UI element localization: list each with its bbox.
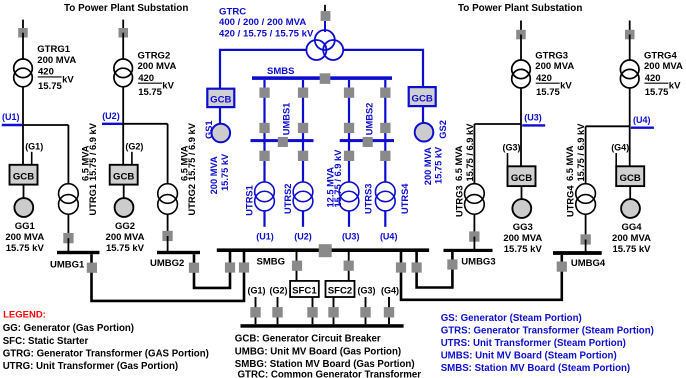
svg-text:(G4): (G4) [611,143,629,153]
svg-text:To Power Plant Substation: To Power Plant Substation [458,3,582,14]
breaker square GTRG3 HV [516,30,526,40]
breaker square aux drop x=312.5 [307,307,317,317]
breaker square GTRG1 HV [18,28,28,38]
svg-text:kV: kV [560,81,572,92]
wire GCB to generator GG3 [521,186,523,199]
bus UMBG3 [444,249,493,252]
bus UMBG4 [553,251,602,255]
wire SMBS drop 2 [302,80,304,183]
wire UTRG1 to breaker [67,214,69,238]
svg-text:GS: Generator (Steam Portion): GS: Generator (Steam Portion) [441,313,582,324]
svg-text:15.75 kV: 15.75 kV [612,244,651,255]
bus UMBS2 [340,139,394,142]
breaker square UMBG2 tie [189,263,199,273]
bus SMBS [252,76,392,80]
transformer UTRS1 [255,182,275,211]
breaker square UTRG2 [162,231,172,241]
svg-text:15.75: 15.75 [536,87,560,98]
svg-text:200 MVA: 200 MVA [612,233,651,244]
generator GG3 [512,199,531,218]
wire tie UMBG2 to SMBG [194,252,230,288]
svg-text:UTRS4: UTRS4 [400,183,410,214]
wire GTRG2 incoming stub [122,20,124,33]
breaker square drop 4 row 1 [380,88,390,98]
svg-text:GG1: GG1 [15,221,36,232]
fraction bar GTRG4 [644,82,668,84]
wire GCB to GS1 [219,107,221,124]
wire (G1) stub [31,152,33,165]
wire transformer GTRG2 to node U2 [122,87,124,124]
svg-text:kV: kV [162,81,174,92]
svg-text:15.75 / 6.9 kV: 15.75 / 6.9 kV [187,122,197,181]
breaker square drop 1 row 2 [259,123,269,133]
breaker square SFC1 top [292,261,302,271]
breaker square on SMBS bus [320,73,331,84]
svg-text:(U2): (U2) [294,232,312,242]
svg-text:(G2): (G2) [270,286,288,296]
wire GTRG4 incoming stub [629,21,631,35]
wire UTRG2 to breaker [167,214,169,236]
svg-text:15.75 / 6.9 kV: 15.75 / 6.9 kV [333,149,343,208]
wire UTRG2 breaker to bus [167,236,169,253]
svg-text:SMBG: Station MV Board (Gas Po: SMBG: Station MV Board (Gas Portion) [235,359,415,370]
breaker square SMBG tie left inner [225,262,235,272]
svg-text:UTRS: Unit Transformer (Steam: UTRS: Unit Transformer (Steam Portion) [441,338,626,349]
breaker square GTRG2 HV [119,28,129,38]
wire GTRG1 HV to transformer [22,33,24,59]
generator GG1 [14,198,33,217]
svg-text:UTRG4: UTRG4 [566,185,576,217]
wire SMBS drop 3 [348,80,350,183]
fraction bar GTRG2 [138,82,162,84]
wire node U4 blue segment [631,126,654,128]
svg-text:UMBG3: UMBG3 [461,257,495,268]
svg-text:GG2: GG2 [115,221,135,232]
breaker square drop 2 row 2 [298,123,308,133]
wire GCB to generator GG4 [629,186,631,199]
wire UTRG3 branch down [473,124,475,184]
svg-text:UTRS2: UTRS2 [283,184,293,214]
svg-text:UTRS3: UTRS3 [364,184,374,214]
breaker square UTRG4 [581,234,591,244]
transformer UTRG2 [158,184,178,215]
svg-text:GTRG1: GTRG1 [37,44,70,55]
wire node U3 to UTRG3 branch [474,123,521,125]
svg-text:(G1): (G1) [248,286,266,296]
bus UMBG1 [57,251,99,254]
wire aux bus drop x=365.5 [365,297,367,324]
svg-text:UTRG2: UTRG2 [187,184,197,216]
svg-text:420 / 15.75 / 15.75 kV: 420 / 15.75 / 15.75 kV [219,28,314,39]
breaker square drop 1 row 1 [259,88,269,98]
wire node U2 to UTRG2 branch [123,123,167,125]
svg-text:420: 420 [138,73,154,84]
svg-text:GCB: GCB [210,95,231,106]
wire GTRC to left GCB (steam) [220,50,306,89]
svg-text:6.5 MVA: 6.5 MVA [454,145,464,181]
wire UTRG4 to breaker [585,214,587,239]
svg-text:200 MVA: 200 MVA [106,232,145,243]
svg-text:(U1): (U1) [256,232,274,242]
svg-text:SFC: Static Starter: SFC: Static Starter [3,336,89,347]
breaker square SMBG tie left outer [239,262,249,272]
wire tie SMBG to UMBG4 [401,252,562,300]
svg-text:SMBS: SMBS [267,66,294,77]
svg-text:UTRG3: UTRG3 [454,185,464,217]
wire (G3) stub [507,153,509,166]
svg-text:UMBG: Unit MV Board (Gas Porti: UMBG: Unit MV Board (Gas Portion) [235,347,401,358]
svg-text:To Power Plant Substation: To Power Plant Substation [64,3,188,14]
circuit breaker GCB unit 4 (gas) [616,166,644,186]
svg-text:200 MVA: 200 MVA [209,156,219,194]
svg-text:kV: kV [62,74,74,85]
wire UTRS1 outlet stub [263,211,265,227]
wire aux bus drop x=255.5 [255,297,257,324]
breaker square aux drop x=277.5 [272,307,282,317]
wire tie UMBG1 to SMBG [92,252,245,301]
bus UMBG2 [157,251,200,254]
wire aux bus drop x=277.5 [277,297,279,324]
svg-text:200 MVA: 200 MVA [423,147,433,185]
svg-text:15.75 kV: 15.75 kV [106,243,145,254]
svg-text:LEGEND:: LEGEND: [3,310,46,321]
breaker square drop 2 row 1 [298,88,308,98]
wire UTRS3 outlet stub [348,211,350,227]
svg-text:6.5 MVA: 6.5 MVA [565,145,575,181]
svg-text:GG: Generator (Gas Portion): GG: Generator (Gas Portion) [3,323,134,334]
svg-text:GTRG4: GTRG4 [644,51,677,62]
wire node U1 to UTRG1 branch [23,124,68,126]
svg-text:GCB: Generator Circuit Breaker: GCB: Generator Circuit Breaker [235,334,381,345]
svg-text:15.75 kV: 15.75 kV [504,244,543,255]
svg-text:UMBS: Unit MV Board (Steam Por: UMBS: Unit MV Board (Steam Portion) [441,350,617,361]
breaker square UTRG3 [469,231,479,241]
wire UTRG2 branch down [167,124,169,184]
wire GTRG3 incoming stub [520,21,522,35]
svg-text:GTRC: GTRC [219,6,246,17]
wire transformer GTRG3 to node U3 [520,88,522,124]
svg-text:GS1: GS1 [204,120,214,139]
wire SMBG to SFC1 [296,252,298,282]
svg-text:400 / 200 / 200 MVA: 400 / 200 / 200 MVA [219,17,306,28]
svg-text:15.75 / 6.9 kV: 15.75 / 6.9 kV [576,123,586,182]
svg-text:420: 420 [38,67,54,78]
svg-text:(U3): (U3) [524,113,542,123]
transformer UTRS2 [293,182,313,211]
static starter SFC1 [290,281,319,297]
wire node U2 blue segment [102,123,123,125]
svg-text:kV: kV [669,81,681,92]
transformer UTRG1 [59,184,79,215]
wire UTRG3 breaker to bus [473,237,475,251]
wire node U1 to GCB [22,125,24,165]
transformer GTRC (3-winding) [306,30,343,60]
svg-text:UTRS1: UTRS1 [245,185,255,215]
wire GTRG2 HV to transformer [122,33,124,59]
svg-text:(G3): (G3) [503,143,521,153]
circuit breaker GCB unit 2 (gas) [110,165,138,185]
wire SMBG to SFC2 [348,252,350,282]
wire GTRG4 HV to transformer [629,35,631,61]
svg-text:UMBG1: UMBG1 [50,259,85,270]
svg-text:200 MVA: 200 MVA [5,232,44,243]
wire tie SMBG to UMBG3 [417,252,453,288]
wire aux bus drop x=333.5 [333,297,335,324]
circuit breaker GCB unit 1 (gas) [10,165,38,185]
svg-text:15.75 kV: 15.75 kV [434,146,444,184]
breaker square GTRC HV [321,11,331,21]
wire (G4) stub [615,153,617,166]
wire UTRG4 branch down [585,126,587,183]
wire UTRG3 to breaker [473,214,475,236]
svg-text:200 MVA: 200 MVA [138,61,177,72]
svg-text:GS2: GS2 [438,120,448,139]
svg-text:UTRG: Unit Transformer (Gas Po: UTRG: Unit Transformer (Gas Portion) [3,361,178,372]
transformer UTRG3 [465,184,485,215]
breaker square UMBG4 tie [557,262,567,272]
svg-text:(U4): (U4) [380,232,398,242]
wire GTRC breaker to transformer [324,21,326,32]
wire node U2 to GCB [122,124,124,165]
svg-text:200 MVA: 200 MVA [37,55,76,66]
svg-text:(G2): (G2) [125,141,143,151]
wire SFC2 bottom jog [333,296,335,298]
svg-text:(G3): (G3) [358,286,376,296]
wire UTRG1 breaker to bus [67,238,69,252]
svg-text:(U3): (U3) [342,232,360,242]
static starter SFC2 [326,281,355,297]
svg-text:(U1): (U1) [2,112,20,122]
transformer UTRS3 [339,182,359,211]
transformer GTRG3 [512,60,531,88]
svg-text:GTRC: Common Generator Transfo: GTRC: Common Generator Transformer [238,369,422,378]
svg-text:200 MVA: 200 MVA [535,61,574,72]
wire GTRG1 incoming stub [22,20,24,33]
breaker square UMBG1 tie [87,263,97,273]
breaker square SFC2 top [344,261,354,271]
transformer UTRS4 [375,182,395,211]
breaker square aux drop x=255.5 [250,307,260,317]
transformer GTRG2 [114,59,133,87]
breaker square aux drop x=389.0 [384,307,394,317]
bus SMBG [217,248,429,252]
wire GCB to GS2 [422,106,424,123]
fraction bar GTRG3 [536,82,560,84]
svg-text:15.75: 15.75 [138,87,162,98]
svg-text:15.75: 15.75 [38,81,62,92]
circuit breaker GCB right (steam) [409,87,436,106]
breaker square drop 3 row 2 [344,123,354,133]
wire SMBS drop 1 [263,80,265,183]
wire aux bus drop x=389.0 [388,297,390,324]
breaker square drop 4 row 2 [380,123,390,133]
breaker square SMBG tie right outer [396,262,406,272]
breaker square drop 4 row 3 [380,151,390,161]
wire GCB to generator GG2 [123,185,125,199]
breaker square UTRG1 [63,233,73,243]
wire GCB to generator GG1 [23,185,25,199]
svg-text:(G1): (G1) [25,141,43,151]
generator GS1 [212,124,231,143]
svg-text:GCB: GCB [113,172,134,183]
svg-text:UMBG2: UMBG2 [150,258,184,269]
svg-text:(U2): (U2) [102,111,120,121]
wire GTRC to right GCB (steam) [343,50,423,87]
bus UMBS1 [251,139,314,142]
wire GTRC incoming stub [324,5,326,16]
svg-text:15.75 / 6.9 kV: 15.75 / 6.9 kV [465,123,475,182]
breaker square GTRG4 HV [625,30,635,40]
svg-text:GG3: GG3 [513,222,533,233]
breaker square SMBG tie right inner [412,262,422,272]
svg-text:GTRG2: GTRG2 [138,51,171,62]
wire node U4 to GCB [629,126,631,166]
svg-text:SMBS: Station MV Board (Steam: SMBS: Station MV Board (Steam Portion) [441,363,630,374]
svg-text:15.75 / 6.9 kV: 15.75 / 6.9 kV [88,122,98,181]
svg-text:15.75 kV: 15.75 kV [6,243,45,254]
svg-text:GTRG3: GTRG3 [535,51,568,62]
breaker square on UMBS1 [278,137,288,147]
wire node U4 to UTRG4 branch [586,125,630,127]
breaker square drop 2 row 3 [298,151,308,161]
wire UTRG1 branch down [67,125,69,184]
svg-text:UMBS1: UMBS1 [281,103,291,136]
svg-text:GCB: GCB [13,172,34,183]
breaker square aux drop x=333.5 [328,307,338,317]
svg-text:15.75 kV: 15.75 kV [220,153,230,191]
breaker square drop 3 row 1 [344,88,354,98]
breaker square aux drop x=365.5 [360,307,370,317]
svg-text:GCB: GCB [412,93,433,104]
svg-text:200 MVA: 200 MVA [644,61,683,72]
fraction bar GTRG1 [38,76,62,78]
svg-text:SFC1: SFC1 [292,286,317,297]
generator GG4 [621,199,640,218]
circuit breaker GCB left (steam) [207,89,234,107]
transformer GTRG4 [620,60,639,88]
svg-text:GCB: GCB [620,173,641,184]
bus auxiliary (bottom) [241,324,404,328]
svg-text:GTRG: Generator Transformer (G: GTRG: Generator Transformer (GAS Portion… [3,348,209,359]
circuit breaker GCB unit 3 (gas) [508,166,536,186]
wire UTRS2 outlet stub [302,211,304,227]
wire SFC1 bottom jog [312,296,314,298]
wire node U1 blue segment [2,124,23,126]
svg-text:GCB: GCB [511,173,532,184]
svg-text:(U4): (U4) [633,115,651,125]
svg-text:SFC2: SFC2 [328,286,353,297]
breaker square on UMBS2 [363,137,373,147]
svg-text:420: 420 [536,73,552,84]
svg-text:GTRS: Generator Transformer (S: GTRS: Generator Transformer (Steam Porti… [441,325,654,336]
generator GG2 [115,198,134,217]
svg-text:15.75: 15.75 [645,87,669,98]
wire transformer GTRG1 to node U1 [22,87,24,125]
wire UTRG4 breaker to bus [585,240,587,254]
svg-text:420: 420 [645,73,661,84]
breaker square UMBG3 tie [447,259,457,269]
svg-text:UTRG1: UTRG1 [88,184,98,216]
svg-text:UMBG4: UMBG4 [571,258,606,269]
svg-text:(G4): (G4) [381,286,399,296]
transformer UTRG4 [576,184,596,215]
breaker square drop 1 row 3 [259,151,269,161]
wire SMBS drop 4 [384,80,386,183]
wire node U3 blue segment [522,124,545,126]
breaker square drop 3 row 3 [344,151,354,161]
svg-text:UMBS2: UMBS2 [365,103,375,136]
wire transformer GTRG4 to node U4 [629,88,631,126]
breaker square on SMBG bus [319,244,332,257]
svg-text:GG4: GG4 [621,222,642,233]
wire (G2) stub [131,152,133,165]
transformer GTRG1 [14,59,33,87]
svg-text:200 MVA: 200 MVA [503,233,542,244]
wire GTRG3 HV to transformer [520,35,522,61]
wire aux bus drop x=312.5 [312,297,314,324]
svg-text:SMBG: SMBG [257,257,286,268]
wire UTRS4 outlet stub [384,211,386,227]
generator GS2 [415,123,434,142]
wire node U3 to GCB [520,124,522,166]
